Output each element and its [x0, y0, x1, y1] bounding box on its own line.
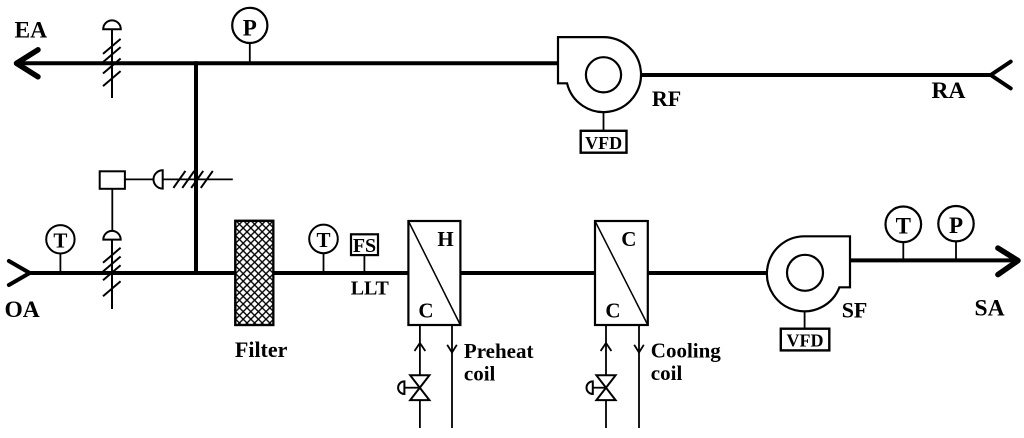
svg-text:SF: SF: [842, 298, 868, 323]
fan SF VFD stem: [804, 311, 806, 329]
OA start fork: [9, 261, 30, 285]
wire: vertical mixed-air duct: [194, 61, 198, 275]
VFD box (RF): [581, 131, 627, 153]
sensor T2: [309, 225, 338, 254]
sensor T3 stem: [902, 241, 904, 260]
preheat supply arrow up: [415, 343, 426, 351]
svg-text:VFD: VFD: [787, 331, 824, 351]
svg-text:coil: coil: [464, 361, 496, 385]
damper D2 (OA line) blade: [103, 240, 121, 309]
svg-text:OA: OA: [5, 297, 40, 323]
SA arrowhead: [998, 248, 1018, 275]
svg-text:P: P: [949, 213, 963, 238]
valve V2 actuator cap: [586, 381, 592, 394]
wire: RA duct line: [640, 73, 991, 77]
svg-text:T: T: [316, 228, 330, 252]
wire: OA duct line: [30, 271, 768, 275]
filter: [235, 221, 273, 325]
svg-text:VFD: VFD: [585, 133, 622, 153]
switch FS box: [351, 234, 378, 255]
link M1 to mixed-air damper: [125, 178, 233, 180]
preheat coil pipe (supply): [419, 324, 421, 428]
svg-text:RF: RF: [652, 86, 681, 111]
sensor T1: [46, 225, 74, 253]
fan RF VFD stem: [603, 112, 605, 131]
cooling coil box: [595, 221, 648, 325]
svg-text:LLT: LLT: [351, 278, 390, 300]
svg-text:EA: EA: [15, 17, 48, 43]
cooling return arrow down: [634, 345, 644, 353]
sensor P2 stem: [955, 240, 957, 260]
wire: SA duct line: [849, 258, 1016, 262]
svg-text:T: T: [53, 228, 67, 252]
fan SF scroll: [767, 236, 850, 311]
actuator M1 box: [100, 171, 125, 189]
svg-text:Filter: Filter: [235, 337, 288, 362]
preheat coil pipe (return): [451, 324, 453, 428]
svg-text:H: H: [437, 227, 453, 251]
preheat coil diagonal: [408, 221, 460, 325]
svg-text:Preheat: Preheat: [464, 339, 534, 363]
valve V1 actuator cap: [398, 381, 404, 394]
preheat return arrow down: [447, 345, 457, 353]
valve V2: [596, 375, 615, 400]
cooling coil pipe (supply): [605, 324, 607, 428]
mixed-air damper actuator cap: [153, 170, 162, 188]
fan SF hub: [787, 255, 823, 291]
damper D1 actuator cap: [103, 20, 121, 29]
VFD box (SF): [781, 329, 830, 351]
fan RF scroll: [558, 37, 641, 112]
sensor P1: [232, 8, 267, 43]
cooling supply arrow up: [601, 343, 612, 351]
sensor T3: [886, 207, 922, 243]
svg-text:FS: FS: [353, 235, 376, 257]
valve V1 actuator link: [404, 387, 419, 389]
sensor P1 stem: [249, 43, 251, 63]
switch FS stem: [363, 255, 365, 273]
wire: EA duct line: [16, 61, 559, 65]
svg-text:Cooling: Cooling: [651, 339, 722, 363]
EA arrowhead: [17, 50, 39, 77]
sensor P2: [938, 206, 973, 241]
svg-text:coil: coil: [651, 361, 683, 385]
cooling coil diagonal: [595, 221, 648, 325]
fan RF hub: [586, 57, 621, 92]
svg-text:SA: SA: [975, 296, 1005, 322]
svg-text:P: P: [243, 15, 257, 40]
damper D2 actuator cap: [103, 231, 120, 240]
sensor T2 stem: [323, 252, 325, 273]
svg-text:C: C: [605, 298, 620, 322]
RA end fork: [991, 62, 1011, 89]
cooling coil pipe (return): [638, 324, 640, 428]
sensor T1 stem: [59, 252, 61, 273]
svg-text:RA: RA: [932, 78, 966, 104]
damper D1 (EA line) blade: [103, 29, 121, 98]
mixed-air damper hatches: [173, 171, 212, 188]
valve V1: [410, 375, 429, 400]
svg-text:C: C: [418, 298, 433, 322]
preheat coil box: [408, 221, 460, 325]
svg-text:T: T: [896, 214, 911, 239]
link M1 to OA damper: [111, 189, 113, 232]
valve V2 actuator link: [593, 387, 606, 389]
svg-text:C: C: [621, 227, 636, 251]
